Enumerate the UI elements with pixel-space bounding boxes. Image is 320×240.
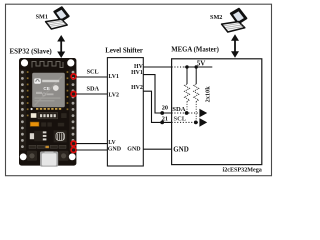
micro-USB connector (40, 151, 58, 166)
wire SDA: ESP32 to level shifter LV2 (76, 93, 107, 95)
node GND pin (71, 148, 76, 153)
ESP-WROOM-32 text (42, 80, 59, 82)
svg-text:LV1: LV1 (108, 74, 119, 80)
RF shield of ESP-WROOM-32 module (31, 73, 65, 110)
Espressif logo (34, 78, 41, 83)
svg-text:SM2: SM2 (210, 14, 222, 21)
svg-text:LV: LV (108, 140, 116, 146)
node LV pin (71, 141, 76, 146)
EN button (27, 151, 37, 161)
svg-text:HV1: HV1 (131, 70, 143, 76)
BOOT button (59, 151, 69, 161)
resistor R1 (pull-up to SDA) (185, 67, 190, 113)
USB-UART chip (54, 130, 67, 142)
wire GND: ESP32 to level shifter GND (76, 149, 107, 151)
flash chip row (31, 113, 37, 118)
node R1-SDA junction (185, 111, 189, 115)
wire HV1 to MEGA pin 20 (143, 75, 171, 113)
castellation pads under shield (36, 108, 61, 110)
left pin header (19, 70, 29, 151)
passives row (29, 145, 66, 148)
node 5V-R1 junction (185, 65, 188, 68)
svg-text:ESP32 (Slave): ESP32 (Slave) (10, 48, 53, 56)
svg-text:SCL: SCL (174, 116, 187, 123)
svg-text:GND: GND (108, 146, 122, 152)
MEGA (Master) box (172, 59, 262, 165)
svg-text:5V: 5V (197, 59, 206, 67)
arrow between SM1 and ESP32 (57, 35, 65, 58)
net SDA inside MEGA (172, 112, 198, 114)
svg-text:HV: HV (134, 64, 144, 70)
wire SCL: ESP32 to level shifter LV1 (76, 76, 107, 78)
arrow SDA direction (199, 109, 207, 118)
node R2-SCL junction (194, 121, 198, 125)
node SDA pin (71, 92, 76, 97)
voltage regulator (30, 133, 34, 139)
svg-text:SM1: SM1 (36, 14, 48, 21)
node SCL pin (71, 74, 76, 79)
small regulatory text rows (36, 92, 42, 94)
antenna meander (32, 62, 63, 68)
wire HV: level shifter to MEGA 5V (143, 66, 171, 68)
mounting holes (21, 59, 28, 66)
svg-text:i2cESP32Mega: i2cESP32Mega (223, 168, 262, 174)
orange component (30, 122, 39, 126)
net SCL inside MEGA (172, 121, 199, 123)
computer SM1 (laptop icon) (46, 7, 69, 29)
wire GND: level shifter to MEGA GND (143, 148, 171, 150)
right pin header (67, 70, 77, 151)
node 5V-R2 junction (195, 65, 198, 68)
level shifter U1 box (107, 58, 143, 166)
svg-text:SDA: SDA (172, 106, 185, 113)
svg-text:CE: CE (43, 86, 49, 91)
svg-text:GND: GND (173, 145, 189, 153)
net 5V rail inside MEGA (172, 66, 213, 68)
svg-text:GND: GND (127, 146, 141, 152)
svg-text:LV2: LV2 (108, 93, 119, 99)
svg-text:SCL: SCL (87, 68, 99, 75)
arrow SCL direction (199, 118, 207, 127)
ESP32 dev board (Slave) (19, 58, 76, 167)
svg-text:Level Shifter: Level Shifter (105, 47, 143, 54)
wire LV: ESP32 to level shifter LV (76, 143, 107, 145)
resistor R2 (pull-up to SCL) (194, 67, 199, 122)
svg-text:2x10k: 2x10k (204, 86, 211, 103)
svg-text:HV2: HV2 (131, 85, 143, 91)
node pin21 junction (160, 121, 164, 125)
node pin20 junction (160, 111, 164, 115)
computer SM2 (laptop icon) (222, 9, 247, 32)
svg-text:SDA: SDA (87, 86, 100, 93)
svg-text:21: 21 (162, 115, 168, 122)
svg-text:20: 20 (162, 104, 168, 111)
wire HV2 to MEGA pin 21 (143, 91, 171, 122)
arrow between SM2 and MEGA (231, 34, 239, 57)
svg-text:MEGA (Master): MEGA (Master) (171, 47, 219, 54)
